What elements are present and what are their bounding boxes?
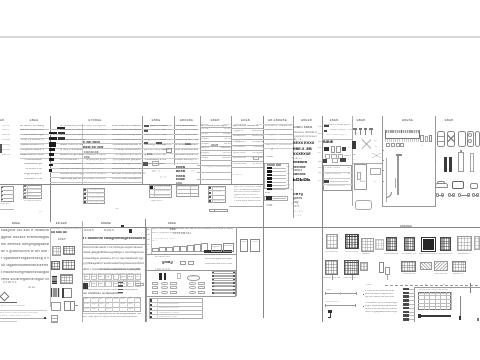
C4 chain dark bar [204,250,232,252]
C7 grid table [419,289,448,292]
top horizontal rule [0,36,480,38]
C7 row1 labels [362,253,373,256]
T3 script scribbles [152,170,170,174]
main divider line [0,226,480,229]
C4 right bar stack [212,271,235,273]
C7 notes para1 [365,290,394,293]
upper band headers [26,119,42,122]
C3 boxed glyph rows [84,274,91,280]
C2 block G [51,288,60,297]
table T6 underlined rows [231,127,263,130]
C6 block D [344,260,359,276]
C7 row1 blocks [361,238,374,253]
T8 scribble cluster [293,193,308,197]
C1 door glyph rows [1,229,49,233]
C6 bracket2 [325,301,339,304]
T3 dark box row [143,162,148,166]
T7 lower frame with dark cell [264,196,288,201]
C2 block F [60,274,73,284]
C1 diamond [0,292,9,302]
T11 pole with T top [396,154,402,155]
T6 dashes row [232,174,253,177]
C7 row2 blocks [360,262,368,272]
C1 sparse row [3,281,45,285]
C1 text rows bottom [1,305,29,308]
C4 right text rows 258 [205,258,233,261]
C7 legend stack [403,288,409,291]
table T1 left dark mark [0,144,2,154]
C4 row2 [152,232,187,235]
T5 dark text [211,144,220,147]
C4 framed boxes right [240,239,249,251]
C7 notes para2 [365,302,397,305]
C4 small table bottom [149,298,203,319]
T7 right margin marks [291,157,294,160]
C2 block B [63,246,75,255]
table T2 swatch blobs [57,127,65,129]
upper table verticals [49,116,52,223]
T11 hatch ticks below [385,139,420,142]
C2 block A [52,246,61,256]
T3 line 167.7 [140,167,200,170]
C3 side marks [83,283,88,289]
C7 pole arrow [459,296,462,320]
C6 labels row2 [323,277,340,280]
C3 dark dense row [83,237,145,241]
C4 chain right boxes [211,244,222,252]
table T8 dark rows [293,126,321,130]
T10 row3 marks [353,154,361,157]
table T4 rows [175,125,198,128]
C2 block C [51,261,60,270]
table T2 mid column texts [86,125,106,128]
C6 block C [325,260,338,276]
table T5 underlined rows [200,126,231,129]
T11 bottom line [382,205,435,208]
table T2 bold cluster [83,141,108,145]
C2 block I [51,302,61,311]
T11 side bracket [394,178,397,188]
C2 block J [64,301,75,311]
table T2 rows [60,125,85,128]
C2 block E [52,275,57,284]
C1 short dark line [0,301,17,304]
T8 sparse italic marks [294,210,316,213]
C4 switch rows [155,237,231,240]
T11 lamp vertical [385,158,388,202]
T6 glyphs [236,140,243,143]
C7 corner mark [477,318,479,321]
dark mark on divider [121,225,124,228]
sub-table S1 [23,185,42,200]
C7 frame top line [414,286,480,289]
C4 top border [146,226,236,229]
T7 w mark [271,148,277,151]
T7 bottom text [266,204,279,208]
table T1 rows [20,125,44,128]
C2 block D [62,260,75,270]
T12 row2 items [436,160,441,163]
T12 sedan row [435,183,448,189]
C3 dark text row 292 [83,292,123,295]
table T1 partial left header [0,119,6,122]
C6 block A [326,234,338,249]
T7 stack frame [264,163,289,189]
T9 sub frame [323,165,352,190]
sub-band stray text left [0,203,10,206]
T4 mid dark marks row4 [185,143,196,146]
lower band verticals [49,227,52,307]
main mid horizontal line y184 [0,183,264,186]
C4 paired box rows [152,282,158,285]
C4 big table frame [146,270,236,297]
T9 dark cluster row [323,140,345,144]
C3 chairs row [84,229,100,233]
T8 large bold row [293,178,317,184]
T4 dark clusters [176,166,190,170]
C4 left label col [150,227,153,254]
T9 line1 [322,138,352,141]
T10 box drawing [354,164,367,190]
sub-table S1 text below [24,200,41,203]
C7 scale bar [418,315,451,317]
T11 right cluster [420,135,424,142]
C4 mid line [146,253,236,256]
C4 glyph row 268 [155,268,207,271]
C4 stepped chain [152,248,159,252]
T3 small box [166,148,172,153]
T7 label2 [265,192,275,195]
T6 bottom line [229,205,264,208]
C2 block K [51,315,58,323]
sub-table S3 [83,188,105,204]
upper tables first-row accents [150,125,170,128]
T7 label [266,156,278,159]
C3 line [82,243,145,246]
C4 bold cluster 261 [162,261,177,265]
sub-band stray mark 39 [39,211,43,214]
T7 black cell stack [267,167,272,170]
C3 glyph noise rows [83,273,141,276]
T10 divider line [352,162,382,165]
T4 script marks [191,170,199,173]
T10 rounded outline [355,200,372,210]
C3 text rows [83,246,144,249]
T8 right margin ticks [318,126,322,129]
C6 block B [345,234,360,250]
C2 top text rows [51,228,82,231]
C6 trophy glyph [328,310,332,313]
T12 bike row [436,193,439,196]
T9 cell rows [324,147,329,151]
C3 text row 289 [83,289,138,292]
C7 dash row [366,284,372,287]
C4 text row 255 [155,256,171,259]
T5 wide rows [197,164,231,167]
T6 notes block [234,186,262,189]
table T3 rows [144,125,166,128]
C6 labels row1 [325,251,339,254]
T11 lamp curve [386,192,392,198]
T5 sub-table Tf [208,186,226,203]
C4 oval [187,275,200,280]
table T9 top rows [324,124,351,127]
sub-band text 116 [115,208,124,211]
T7 stack header boxes [267,164,271,166]
table T10 icon row1 [354,129,357,135]
sub-table Td [149,185,172,198]
C3 extra row 270 [100,268,140,271]
C7 row2 labels [402,273,415,276]
T10 bottom-left glyphs row [360,180,371,183]
table T7 rows [263,123,292,126]
T12 car row plan view [437,131,445,148]
sub-table Te [176,185,199,197]
T11 wall section rect [385,130,420,139]
C4 dark bars [159,273,161,280]
C6 bracket1 [326,289,333,292]
C4 header row [152,228,235,231]
T11 left edge ticks [382,149,384,152]
section titles [12,222,24,225]
T10 dark rect and fan [352,141,356,149]
sub-table S0 [1,186,14,202]
C2 block H [62,288,72,298]
C3 grid table [83,297,141,313]
T11 small boxes row [386,143,390,147]
C3 bottom text rows [83,313,141,316]
T5 bar below [209,209,228,213]
